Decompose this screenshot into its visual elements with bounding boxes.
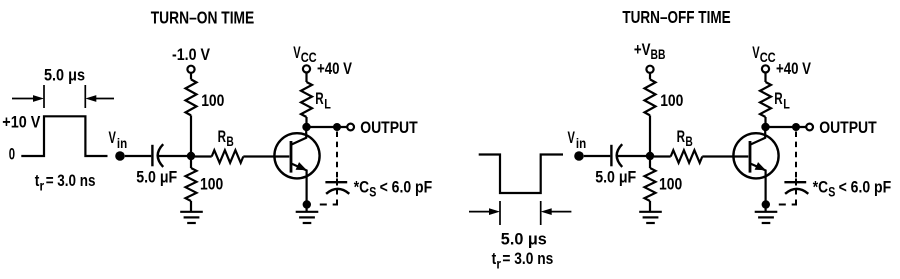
dimension arrow right (turn-on) [85, 95, 114, 102]
wire VCC to RL (turn-off) [764, 73, 766, 82]
wire RL to collector node (turn-off) [764, 117, 766, 127]
input pulse waveform (turn-on) [21, 116, 107, 156]
svg-text:R: R [677, 127, 685, 146]
svg-text:B: B [226, 133, 233, 149]
resistor 100 lower (turn-off) [645, 168, 656, 201]
svg-text:TURN–OFF TIME: TURN–OFF TIME [622, 7, 730, 27]
resistor 100 upper (turn-off) [645, 79, 656, 115]
supply terminal circle (turn-off) [646, 66, 653, 73]
wire upper resistor to node (turn-on) [190, 115, 192, 156]
svg-text:OUTPUT: OUTPUT [819, 118, 877, 137]
svg-text:100: 100 [659, 175, 682, 194]
capacitor CS stray dashed lead upper (turn-off) [795, 132, 797, 178]
node collector (turn-off) [761, 123, 769, 131]
label RB (turn-off) [677, 127, 693, 149]
svg-text:100: 100 [200, 175, 223, 194]
transistor Q NPN (turn-off) [733, 127, 778, 212]
wire lower resistor to ground (turn-off) [649, 201, 651, 212]
input pulse waveform (turn-off) [479, 155, 563, 194]
resistor RB (turn-off) [671, 150, 703, 163]
wire supply to upper resistor (turn-off) [649, 73, 651, 79]
junction node CS tap (turn-off) [792, 123, 800, 131]
wire VCC to RL (turn-on) [305, 73, 307, 82]
resistor RB (turn-on) [212, 150, 244, 163]
capacitor CS plates (turn-off) [784, 182, 808, 194]
svg-text:OUTPUT: OUTPUT [360, 118, 418, 137]
resistor RL (turn-on) [301, 82, 312, 117]
svg-text:< 6.0 pF: < 6.0 pF [839, 178, 892, 197]
label +VBB supply [634, 40, 666, 62]
label RL (turn-off) [774, 89, 790, 112]
wire lower resistor to ground (turn-on) [190, 201, 192, 212]
label VCC (turn-off) [752, 43, 776, 65]
svg-text:CC: CC [760, 49, 776, 65]
dimension arrow left (turn-on) [12, 95, 44, 102]
wire RB to base (turn-off) [702, 155, 748, 157]
wire Vin to coupling capacitor (turn-on) [125, 155, 152, 157]
node emitter (turn-on) [303, 200, 311, 208]
svg-text:R: R [774, 89, 782, 108]
svg-text:*C: *C [354, 178, 369, 197]
svg-text:100: 100 [660, 91, 683, 110]
svg-text:= 3.0 ns: = 3.0 ns [502, 249, 553, 268]
svg-text:L: L [324, 96, 331, 112]
resistor 100 lower (turn-on) [186, 168, 197, 201]
dimension tick right (turn-off) [540, 201, 542, 225]
supply VCC terminal (turn-off) [762, 65, 769, 72]
label Vin (turn-on) [109, 128, 128, 151]
svg-text:+10 V: +10 V [2, 113, 41, 132]
wire supply to upper resistor (turn-on) [190, 73, 192, 79]
svg-text:+V: +V [634, 40, 651, 59]
svg-text:CC: CC [301, 49, 317, 65]
svg-text:S: S [369, 184, 376, 200]
wire capacitor to divider node (turn-off) [618, 155, 651, 157]
wire node to lower resistor (turn-on) [190, 156, 192, 168]
label *CS < 6.0 pF (turn-off) [813, 178, 891, 200]
svg-text:+40 V: +40 V [776, 59, 812, 78]
wire collector to output (turn-on) [307, 126, 348, 128]
wire capacitor to divider node (turn-on) [159, 155, 192, 157]
svg-text:L: L [783, 96, 790, 112]
svg-text:+40 V: +40 V [317, 59, 353, 78]
svg-text:< 6.0 pF: < 6.0 pF [380, 178, 433, 197]
svg-text:-1.0 V: -1.0 V [172, 45, 211, 64]
svg-text:V: V [109, 128, 117, 147]
wire node to lower resistor (turn-off) [649, 156, 651, 168]
wire node to RB (turn-off) [654, 155, 671, 157]
svg-text:*C: *C [813, 178, 828, 197]
svg-text:5.0 μF: 5.0 μF [136, 168, 177, 187]
wire RL to collector node (turn-on) [305, 117, 307, 127]
ground emitter (turn-on) [296, 212, 319, 223]
dimension tick left (turn-off) [499, 201, 501, 225]
junction node base divider (turn-on) [187, 152, 195, 160]
svg-text:R: R [315, 89, 323, 108]
junction node CS tap (turn-on) [333, 123, 341, 131]
node emitter (turn-off) [762, 200, 770, 208]
output terminal circle (turn-on) [347, 124, 354, 131]
resistor 100 upper (turn-on) [186, 79, 197, 115]
capacitor CS plates (turn-on) [325, 182, 349, 194]
transistor Q NPN (turn-on) [274, 127, 319, 212]
label tr = 3.0 ns (turn-off) [492, 249, 554, 272]
dimension tick right (turn-on) [84, 85, 86, 108]
capacitor CS dashed lead lower (turn-on) [336, 179, 338, 186]
svg-text:5.0 μF: 5.0 μF [595, 168, 636, 187]
svg-text:in: in [117, 135, 127, 151]
svg-text:S: S [828, 184, 835, 200]
output terminal circle (turn-off) [806, 124, 813, 131]
svg-text:V: V [568, 128, 576, 147]
svg-text:100: 100 [201, 91, 224, 110]
label RL (turn-on) [315, 89, 331, 112]
ground divider (turn-on) [180, 212, 203, 223]
wire collector to output (turn-off) [766, 126, 807, 128]
node Vin (turn-on) [115, 151, 125, 161]
svg-text:r: r [496, 256, 501, 272]
wire Vin to coupling capacitor (turn-off) [584, 155, 611, 157]
svg-text:TURN–ON TIME: TURN–ON TIME [151, 8, 255, 28]
capacitor CS stray dashed lead upper (turn-on) [336, 132, 338, 178]
supply terminal circle (turn-on) [187, 66, 194, 73]
svg-text:= 3.0 ns: = 3.0 ns [46, 171, 96, 190]
ground divider (turn-off) [639, 212, 662, 223]
svg-text:in: in [576, 135, 586, 151]
dimension arrow left (turn-off) [469, 208, 500, 215]
svg-text:r: r [40, 178, 45, 194]
supply VCC terminal (turn-on) [303, 65, 310, 72]
svg-text:BB: BB [651, 46, 666, 62]
wire RB to base (turn-on) [243, 155, 289, 157]
resistor RL (turn-off) [760, 82, 771, 117]
wire upper resistor to node (turn-off) [649, 115, 651, 156]
node collector (turn-on) [302, 123, 310, 131]
label VCC (turn-on) [293, 43, 317, 65]
capacitor 5.0 uF (turn-off) [611, 144, 622, 167]
svg-text:5.0 μs: 5.0 μs [501, 230, 547, 249]
label RB (turn-on) [218, 127, 234, 149]
svg-text:0: 0 [9, 145, 15, 164]
ground emitter (turn-off) [755, 212, 778, 223]
node Vin (turn-off) [574, 151, 584, 161]
dimension arrow right (turn-off) [541, 208, 572, 215]
svg-text:B: B [685, 133, 692, 149]
capacitor CS dashed lead lower (turn-off) [795, 179, 797, 186]
svg-text:5.0 μs: 5.0 μs [44, 66, 85, 85]
label Vin (turn-off) [568, 128, 587, 151]
dimension tick left (turn-on) [43, 85, 45, 108]
junction node base divider (turn-off) [646, 152, 654, 160]
svg-text:R: R [218, 127, 226, 146]
wire node to RB (turn-on) [195, 155, 212, 157]
label tr = 3.0 ns (turn-on) [35, 171, 96, 194]
capacitor 5.0 uF (turn-on) [152, 144, 163, 167]
label *CS < 6.0 pF (turn-on) [354, 178, 432, 200]
